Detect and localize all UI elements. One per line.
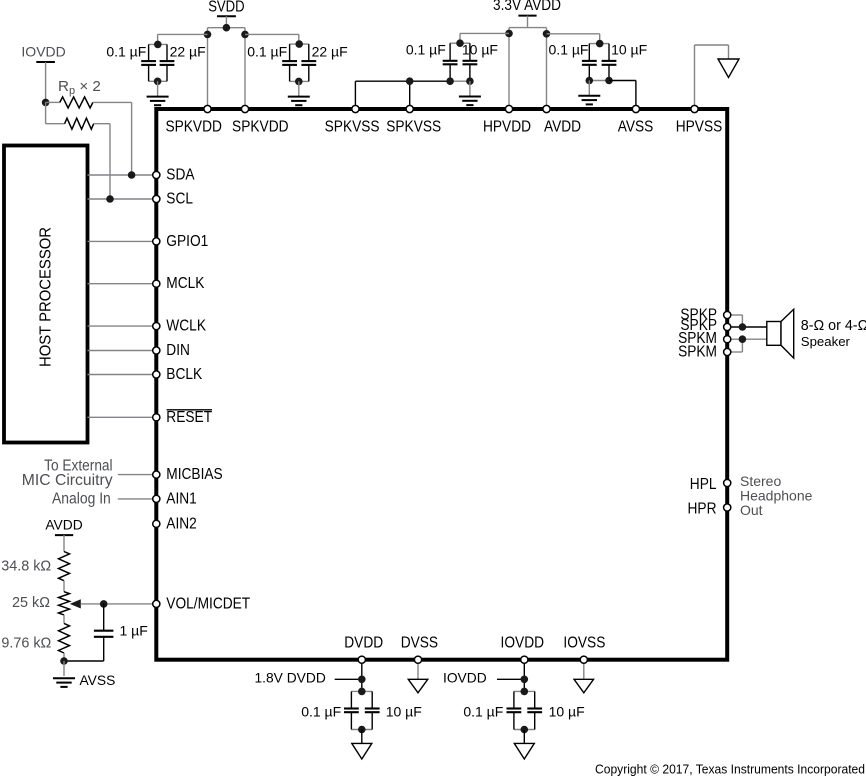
wire host to SDA [88,174,157,176]
svg-text:AVSS: AVSS [618,118,654,135]
pin VOL/MICDET [153,600,160,607]
capacitor pair C12 C13 [507,688,543,730]
wire to cap group C5C6 [460,33,509,43]
pin SPKM 2 [724,348,731,355]
node C10C11 bottom [358,726,366,734]
pin MICBIAS [153,471,160,478]
pin HPR [724,504,731,511]
pin GPIO1 [153,238,160,245]
svg-text:HPVDD: HPVDD [483,118,531,135]
svg-text:MCLK: MCLK [166,275,205,292]
node C7C8 bottom junctions [586,77,613,85]
svg-text:0.1 µF: 0.1 µF [549,42,589,58]
svg-text:IOVSS: IOVSS [563,634,605,651]
svg-text:Copyright © 2017, Texas Instru: Copyright © 2017, Texas Instruments Inco… [595,762,865,777]
svg-text:AIN1: AIN1 [166,490,197,507]
svg-text:AVDD: AVDD [45,518,82,533]
node C5C6 bottom junctions [446,77,473,85]
ground arrow DVDD caps [352,743,372,759]
node SPKM junction [739,335,747,343]
svg-text:BCLK: BCLK [166,366,202,383]
capacitor C9 1uF [94,604,114,661]
svg-text:22 µF: 22 µF [170,44,206,60]
svg-text:IOVDD: IOVDD [443,670,487,685]
host processor block [4,146,88,443]
svg-text:IOVDD: IOVDD [21,44,65,60]
capacitor pair C1 C2 [141,41,174,82]
wire Rp2 to SCL [94,124,110,199]
svg-text:SPKM: SPKM [678,344,717,361]
svg-text:0.1 µF: 0.1 µF [406,42,446,58]
svg-text:HPVSS: HPVSS [676,118,723,135]
wire R1 to R2 [63,581,65,592]
svg-text:SPKVSS: SPKVSS [386,118,441,135]
ground arrow HPVSS [718,59,739,78]
pin SPKM 1 [724,336,731,343]
svg-text:3.3V AVDD: 3.3V AVDD [493,0,561,14]
resistor R1 34.8k [59,552,70,581]
svg-text:MIC Circuitry: MIC Circuitry [22,472,113,489]
svg-text:10 µF: 10 µF [386,704,422,720]
wire SPKP1 jog [727,315,742,327]
pin HPVSS [691,105,698,112]
wire HPVSS to ground [695,45,729,109]
wire IOVDD to Rp2 [45,102,47,123]
wire to cap group C1C2 [158,34,208,44]
node SVDD junctions [204,24,249,38]
node SPKVSS junction [406,77,414,85]
wire 1.8V DVDD feed [335,678,362,680]
svg-text:10 µF: 10 µF [611,42,647,58]
node C12C13 bottom [521,726,529,734]
ground AVSS [53,661,75,687]
label bottom pin names [344,634,605,651]
pin WCLK [153,323,160,330]
svg-text:Rp × 2: Rp × 2 [58,78,101,97]
pin SPKP 1 [724,311,731,318]
power SVDD supply [208,0,244,28]
node divider bottom [60,657,68,665]
pin AIN2 [153,520,160,527]
pin SPKVSS 1 [352,105,359,112]
node IOVDD junction [42,99,50,107]
label To External MIC Circuitry [22,458,113,490]
pin MCLK [153,280,160,287]
svg-text:34.8 kΩ: 34.8 kΩ [1,559,51,575]
svg-text:IOVDD: IOVDD [501,634,545,651]
pin DVSS [414,656,421,663]
wire host to RESET [88,416,157,418]
pin HPVDD [505,105,512,112]
svg-text:10 µF: 10 µF [549,704,585,720]
wire SPKM1 to speaker [727,338,767,340]
wire SVDD rail [208,28,246,109]
svg-text:Out: Out [740,502,763,518]
node SDA pull-up junction [128,171,136,179]
wire AVDD rail [509,28,547,109]
ground arrow IOVDD caps [514,743,534,759]
svg-text:SVDD: SVDD [208,0,244,16]
wire MICBIAS [118,474,157,476]
pin DIN [153,347,160,354]
power 3.3V AVDD supply [493,0,561,28]
potentiometer R2 25k [59,592,70,615]
wire R3 to AVSS node [63,653,65,661]
label Stereo Headphone Out [740,473,813,518]
svg-text:SPKVDD: SPKVDD [232,118,289,135]
label speaker pin names [678,306,717,360]
pin IOVDD [521,656,528,663]
node C1C2 bottom [154,78,162,86]
svg-text:Speaker: Speaker [801,334,851,349]
svg-text:1 µF: 1 µF [120,623,148,639]
pin BCLK [153,371,160,378]
IC U1 body [156,109,727,660]
pin SPKVDD 2 [241,105,248,112]
node DVDD junction [358,676,366,684]
pin SPKVDD 1 [204,105,211,112]
pin HPL [724,479,731,486]
pin RESET [153,414,160,421]
wire C12C13 to ground [523,730,525,744]
ground arrow DVSS [408,679,428,693]
wire SPKM2 jog [727,339,742,352]
power IOVDD supply (pull-up source) [21,44,65,103]
capacitor pair C3 C4 [282,40,316,81]
svg-text:0.1 µF: 0.1 µF [463,704,503,720]
svg-text:DIN: DIN [166,342,190,359]
svg-text:SPKVSS: SPKVSS [325,118,380,135]
wire DVSS to ground [417,660,419,680]
svg-text:SCL: SCL [166,191,193,208]
wire R2 to R3 [63,615,65,624]
wire to cap group C7C8 [547,34,600,44]
wire host to SCL [88,198,157,200]
resistor R3 9.76k [59,623,70,653]
svg-text:22 µF: 22 µF [312,44,348,60]
wire IOVSS to ground [583,660,585,680]
svg-text:1.8V DVDD: 1.8V DVDD [254,670,325,685]
ground C5C6 [459,81,481,105]
svg-text:0.1 µF: 0.1 µF [247,44,287,60]
capacitor pair C10 C11 [344,688,380,730]
wire host to MCLK [88,283,157,285]
svg-text:25 kΩ: 25 kΩ [12,595,50,611]
svg-text:MICBIAS: MICBIAS [166,466,222,483]
svg-text:WCLK: WCLK [166,318,206,335]
svg-text:AVSS: AVSS [80,673,116,688]
wire SPKP2 to speaker [727,326,767,328]
wire Rp1 to SDA [93,102,132,175]
node SPKP junction [739,323,747,331]
svg-text:GPIO1: GPIO1 [166,233,208,250]
power AVDD supply (divider) [45,518,82,552]
label top pin names [165,118,722,135]
node C3C4 bottom [295,78,303,86]
wire host to WCLK [88,325,157,327]
svg-text:9.76 kΩ: 9.76 kΩ [1,635,51,651]
svg-text:0.1 µF: 0.1 µF [106,44,146,60]
pin DVDD [358,656,365,663]
wire SPKVSS rail [355,81,450,109]
ground arrow IOVSS [574,679,594,693]
pin SCL [153,195,160,202]
pin IOVSS [580,656,587,663]
pin AVSS [632,105,639,112]
pin AIN1 [153,495,160,502]
wire AIN1 [118,498,157,500]
resistor Rp1 [46,97,93,108]
node AVDD junctions [505,30,550,38]
svg-text:Analog In: Analog In [52,490,111,507]
wire to cap group C3C4 [245,34,299,44]
wire host to GPIO1 [88,240,157,242]
svg-text:HOST PROCESSOR: HOST PROCESSOR [38,227,55,367]
speaker LS1 [767,309,794,358]
svg-text:SDA: SDA [166,167,195,184]
svg-text:DVDD: DVDD [344,634,383,651]
wire C10C11 to ground [361,730,363,744]
ground C3C4 [288,81,310,105]
pin SDA [153,171,160,178]
wire host to DIN [88,350,157,352]
wire DVDD down [361,660,363,692]
pin SPKP 2 [724,323,731,330]
svg-text:8-Ω or 4-Ω: 8-Ω or 4-Ω [801,318,866,334]
wiper arrow R2 [70,599,81,608]
wire IOVDD feed [497,678,524,680]
wire wiper to VOL/MICDET [81,603,157,605]
svg-text:RESET: RESET [166,409,212,426]
node IOVDD junction [521,676,529,684]
svg-text:VOL/MICDET: VOL/MICDET [166,595,250,612]
node SCL pull-up junction [106,195,114,203]
capacitor pair C5 C6 [443,39,478,81]
ground C7C8 [578,81,600,105]
svg-text:DVSS: DVSS [401,634,438,651]
svg-text:AIN2: AIN2 [166,515,197,532]
capacitor pair C7 C8 [582,40,617,81]
svg-text:0.1 µF: 0.1 µF [301,704,341,720]
wire IOVDD down [523,660,525,692]
svg-text:HPL: HPL [690,476,717,493]
svg-text:AVDD: AVDD [544,118,581,135]
pin AVDD [543,105,550,112]
ground C1C2 [147,81,169,105]
svg-text:SPKVDD: SPKVDD [165,118,222,135]
wire host to BCLK [88,374,157,376]
wire C9 to AVSS node [64,660,104,662]
svg-text:HPR: HPR [688,501,717,518]
svg-text:10 µF: 10 µF [462,42,498,58]
label speaker [801,318,866,349]
pin SPKVSS 2 [406,105,413,112]
wire AVSS riser [609,81,636,110]
node wiper cap junction [100,600,108,608]
resistor Rp2 [46,118,94,129]
